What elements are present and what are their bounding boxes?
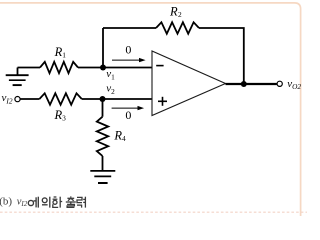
- wire feedback top: [103, 27, 156, 29]
- node v1 junction dot: [100, 65, 106, 71]
- current arrow 0 (bottom): [112, 106, 145, 122]
- svg-text:(b): (b): [0, 196, 12, 208]
- svg-text:0: 0: [125, 42, 131, 56]
- op-amp minus sign: [156, 65, 163, 67]
- wire vI2 to R3: [20, 98, 39, 100]
- resistor R3: [39, 93, 81, 104]
- wire feedback left vertical: [102, 28, 104, 68]
- terminal vO2: [277, 81, 282, 86]
- svg-text:0: 0: [125, 108, 131, 122]
- wire op-amp output: [226, 83, 277, 85]
- node output junction dot: [241, 81, 247, 87]
- figure frame bottom dashed rule: [0, 211, 307, 213]
- op-amp plus sign: [158, 97, 167, 106]
- current arrow 0 (top): [112, 42, 146, 62]
- ground (bottom, under R4): [90, 156, 115, 183]
- caption korean: 한: [53, 197, 63, 208]
- resistor R4: [97, 117, 108, 156]
- caption korean: 출: [66, 196, 76, 207]
- wire ground to R1: [18, 67, 41, 69]
- resistor R2: [156, 22, 199, 33]
- resistor R1: [40, 62, 78, 73]
- wire R1 to op-amp minus input: [78, 67, 152, 69]
- caption korean: 에: [28, 197, 38, 208]
- wire R3 to op-amp plus input: [82, 98, 152, 100]
- node v2 junction dot: [100, 96, 106, 102]
- ground (left, at R1 input): [6, 68, 29, 86]
- op-amp U1: [152, 51, 226, 116]
- wire feedback top right: [199, 28, 244, 84]
- terminal vI2: [15, 97, 20, 102]
- caption korean: 력: [77, 197, 85, 208]
- caption korean: 의: [42, 197, 50, 208]
- wire v2 down to R4: [102, 99, 104, 117]
